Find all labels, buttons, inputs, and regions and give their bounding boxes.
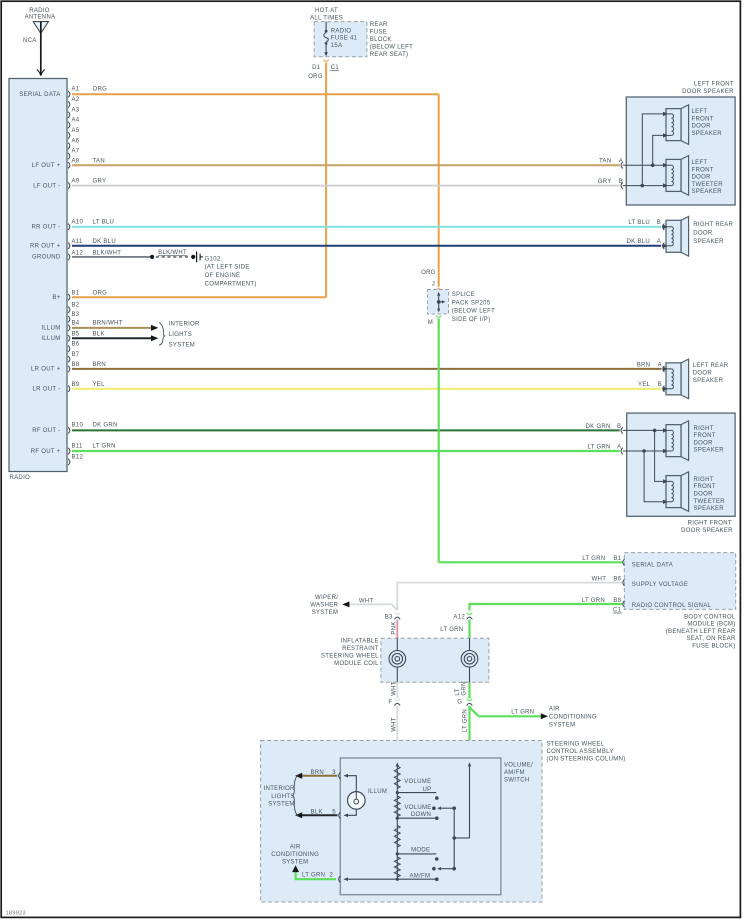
svg-text:B8: B8 [72,362,80,368]
svg-text:HOT AT: HOT AT [315,8,338,14]
svg-text:AM/FM: AM/FM [504,770,525,776]
svg-text:ORG: ORG [93,291,108,297]
svg-text:YEL: YEL [638,382,651,388]
svg-text:SPEAKER: SPEAKER [692,131,723,137]
svg-text:WHT: WHT [359,598,374,604]
svg-text:ALL TIMES: ALL TIMES [310,15,343,21]
svg-text:GRN: GRN [462,681,468,695]
svg-text:BLK/WHT: BLK/WHT [93,251,122,257]
svg-text:YEL: YEL [93,382,106,388]
svg-text:SPEAKER: SPEAKER [694,506,725,512]
svg-text:LT GRN: LT GRN [440,627,463,633]
svg-text:RIGHT: RIGHT [694,477,714,483]
svg-text:PNK: PNK [391,621,397,634]
svg-text:INFLATABLE: INFLATABLE [341,639,379,645]
svg-text:WASHER: WASHER [310,602,338,608]
svg-text:B6: B6 [72,341,80,347]
svg-text:DK GRN: DK GRN [93,423,118,429]
svg-text:A12: A12 [453,614,465,620]
svg-text:TAN: TAN [93,159,105,165]
svg-text:B3: B3 [385,614,393,620]
svg-text:DK GRN: DK GRN [586,424,611,430]
svg-text:LT BLU: LT BLU [93,220,115,226]
svg-text:LT GRN: LT GRN [582,556,605,562]
svg-text:RADIO: RADIO [29,8,50,14]
svg-text:B: B [619,179,623,185]
svg-text:B+: B+ [52,295,60,301]
svg-text:SERIAL DATA: SERIAL DATA [19,92,60,98]
svg-text:A: A [617,444,621,450]
svg-text:LT GRN: LT GRN [582,598,605,604]
svg-text:B10: B10 [72,423,84,429]
svg-text:B11: B11 [72,444,83,450]
svg-text:A: A [657,239,661,245]
svg-text:SPLICE: SPLICE [452,292,475,298]
svg-text:DOOR SPEAKER: DOOR SPEAKER [681,528,733,534]
svg-text:GROUND: GROUND [32,255,61,261]
svg-text:B4: B4 [72,321,80,327]
svg-text:RIGHT REAR: RIGHT REAR [693,222,733,228]
svg-text:SPEAKER: SPEAKER [694,448,725,454]
svg-text:3: 3 [332,770,336,776]
svg-text:A2: A2 [72,97,80,103]
svg-text:LEFT: LEFT [692,160,708,166]
svg-text:DOOR: DOOR [692,175,712,181]
svg-text:B1: B1 [72,291,80,297]
svg-text:DK BLU: DK BLU [93,239,116,245]
svg-text:RR OUT +: RR OUT + [30,244,61,250]
svg-text:SWITCH: SWITCH [504,777,529,783]
svg-text:LT GRN: LT GRN [587,444,610,450]
svg-text:SPEAKER: SPEAKER [692,189,723,195]
svg-text:A4: A4 [72,118,80,124]
svg-text:B: B [617,424,621,430]
svg-text:WIPER/: WIPER/ [315,595,338,601]
svg-text:COMPARTMENT): COMPARTMENT) [205,282,257,288]
svg-text:LIGHTS: LIGHTS [271,794,294,800]
svg-text:SYSTEM: SYSTEM [169,343,195,349]
svg-text:DOOR: DOOR [693,371,713,377]
svg-text:FUSE 41: FUSE 41 [331,36,358,42]
svg-text:15A: 15A [331,43,343,49]
svg-text:UP: UP [422,787,431,793]
svg-text:B7: B7 [72,352,80,358]
svg-text:LEFT FRONT: LEFT FRONT [694,82,734,88]
svg-text:(BELOW LEFT: (BELOW LEFT [370,45,413,51]
svg-text:ILLUM: ILLUM [368,789,387,795]
svg-text:AM/FM: AM/FM [409,874,430,880]
svg-text:RIGHT FRONT: RIGHT FRONT [688,520,732,526]
svg-text:B: B [658,382,662,388]
svg-text:A5: A5 [72,128,80,134]
svg-text:STEERING WHEEL: STEERING WHEEL [547,741,605,747]
svg-text:LR OUT -: LR OUT - [33,387,61,393]
svg-text:WHT: WHT [391,681,397,696]
svg-text:RADIO CONTROL SIGNAL: RADIO CONTROL SIGNAL [632,603,712,609]
svg-text:ORG: ORG [93,87,108,93]
svg-text:A: A [658,362,662,368]
svg-text:LEFT REAR: LEFT REAR [693,363,729,369]
svg-text:BRN: BRN [637,362,651,368]
svg-text:G102: G102 [205,256,221,262]
svg-text:RADIO: RADIO [331,28,352,34]
svg-text:BLK: BLK [311,810,323,816]
svg-text:INTERIOR: INTERIOR [169,322,200,328]
svg-text:D1: D1 [312,65,321,71]
svg-text:SPEAKER: SPEAKER [693,378,724,384]
svg-text:LT: LT [455,688,461,695]
svg-text:AIR: AIR [549,707,560,713]
svg-text:FRONT: FRONT [692,116,714,122]
svg-text:C1: C1 [331,65,340,71]
svg-text:ILLUM: ILLUM [41,336,60,342]
svg-text:SUPPLY VOLTAGE: SUPPLY VOLTAGE [632,582,688,588]
svg-text:LT GRN: LT GRN [511,710,534,716]
svg-text:LT GRN: LT GRN [93,444,116,450]
svg-text:A6: A6 [72,138,80,144]
svg-text:LR OUT +: LR OUT + [31,367,61,373]
svg-text:A: A [619,159,623,165]
svg-text:DOOR: DOOR [693,230,713,236]
svg-text:LT GRN: LT GRN [463,709,469,732]
svg-text:WHT: WHT [592,577,607,583]
svg-text:(BENEATH LEFT REAR: (BENEATH LEFT REAR [666,629,736,635]
svg-text:B5: B5 [72,331,80,337]
svg-text:FRONT: FRONT [692,167,714,173]
svg-text:CONDITIONING: CONDITIONING [271,852,319,858]
svg-text:RF OUT -: RF OUT - [32,428,60,434]
svg-text:A10: A10 [72,220,84,226]
svg-text:A7: A7 [72,149,80,155]
svg-text:NCA: NCA [23,38,37,44]
svg-text:A12: A12 [72,251,84,257]
svg-text:BRN/WHT: BRN/WHT [93,321,123,327]
svg-text:SIDE OF I/P): SIDE OF I/P) [452,317,491,323]
svg-text:SYSTEM: SYSTEM [282,859,308,865]
svg-text:BRN: BRN [311,770,325,776]
svg-text:DOOR: DOOR [694,440,714,446]
svg-text:REAR: REAR [370,22,388,28]
svg-text:RR OUT -: RR OUT - [32,225,61,231]
svg-text:J: J [432,281,435,287]
svg-text:DOOR: DOOR [694,492,714,498]
svg-text:B6: B6 [613,577,621,583]
svg-text:FRONT: FRONT [694,433,716,439]
svg-text:GRY: GRY [598,179,612,185]
svg-text:FUSE: FUSE [370,30,387,36]
svg-text:MODULE (BCM): MODULE (BCM) [687,622,735,628]
svg-text:SYSTEM: SYSTEM [268,802,294,808]
svg-text:LF OUT -: LF OUT - [33,183,60,189]
svg-text:ORG: ORG [421,270,436,276]
svg-text:C1: C1 [613,607,622,613]
svg-text:SEAT, ON REAR: SEAT, ON REAR [686,636,735,642]
svg-text:DOWN: DOWN [411,812,431,818]
svg-text:VOLUME/: VOLUME/ [504,763,533,769]
svg-text:LF OUT +: LF OUT + [32,163,61,169]
svg-text:MODULE COIL: MODULE COIL [334,661,379,667]
svg-text:(BELOW LEFT: (BELOW LEFT [452,309,495,315]
svg-text:FRONT: FRONT [694,484,716,490]
svg-text:REAR SEAT): REAR SEAT) [370,52,409,58]
svg-text:BODY CONTROL: BODY CONTROL [684,614,736,620]
svg-text:RADIO: RADIO [10,475,31,481]
svg-text:ORG: ORG [308,74,323,80]
svg-text:SYSTEM: SYSTEM [549,723,575,729]
svg-text:B: B [657,220,661,226]
svg-text:SYSTEM: SYSTEM [312,610,338,616]
svg-text:BRN: BRN [93,362,107,368]
svg-text:GRY: GRY [93,178,107,184]
svg-text:ILLUM: ILLUM [41,326,60,332]
svg-text:OF ENGINE: OF ENGINE [205,273,241,279]
svg-text:LT GRN: LT GRN [302,873,325,879]
svg-text:A9: A9 [72,178,80,184]
svg-text:A3: A3 [72,107,80,113]
svg-text:MODE: MODE [411,847,430,853]
svg-text:STEERING WHEEL: STEERING WHEEL [321,654,379,660]
svg-text:B8: B8 [613,598,621,604]
svg-text:F: F [388,699,392,705]
svg-text:M: M [428,320,433,326]
svg-text:SERIAL DATA: SERIAL DATA [632,563,673,569]
svg-text:LIGHTS: LIGHTS [169,332,192,338]
svg-text:A1: A1 [72,87,80,93]
svg-text:A11: A11 [72,239,83,245]
svg-text:VOLUME: VOLUME [404,805,431,811]
svg-text:(AT LEFT SIDE: (AT LEFT SIDE [205,265,250,271]
svg-text:BLOCK: BLOCK [370,37,392,43]
svg-text:TAN: TAN [599,159,611,165]
svg-text:B9: B9 [72,382,80,388]
svg-text:SPEAKER: SPEAKER [693,239,724,245]
svg-text:B12: B12 [72,455,84,461]
svg-text:ANTENNA: ANTENNA [25,15,56,21]
svg-text:5: 5 [332,810,336,816]
svg-text:TWEETER: TWEETER [694,499,726,505]
svg-text:TWEETER: TWEETER [692,182,724,188]
svg-text:B2: B2 [72,302,80,308]
svg-text:A8: A8 [72,159,80,165]
svg-text:PACK SP205: PACK SP205 [452,300,491,306]
svg-text:AIR: AIR [290,844,301,850]
svg-text:DK BLU: DK BLU [627,239,650,245]
svg-text:RESTRAINT: RESTRAINT [342,646,379,652]
svg-text:FUSE BLOCK): FUSE BLOCK) [692,644,735,650]
svg-text:2: 2 [330,873,334,879]
svg-text:LEFT: LEFT [692,109,708,115]
svg-text:B1: B1 [613,556,621,562]
svg-text:DOOR SPEAKER: DOOR SPEAKER [682,89,734,95]
svg-text:LT BLU: LT BLU [628,220,650,226]
svg-text:INTERIOR: INTERIOR [264,786,295,792]
svg-text:WHT: WHT [391,717,397,732]
svg-text:CONTROL ASSEMBLY: CONTROL ASSEMBLY [547,749,614,755]
svg-text:(ON STEERING COLUMN): (ON STEERING COLUMN) [547,756,626,762]
svg-text:189923: 189923 [6,911,26,917]
svg-text:DOOR: DOOR [692,124,712,130]
svg-text:RIGHT: RIGHT [694,426,714,432]
svg-text:VOLUME: VOLUME [404,779,431,785]
svg-text:G: G [457,699,462,705]
svg-text:CONDITIONING: CONDITIONING [549,715,597,721]
svg-text:BLK: BLK [93,331,105,337]
svg-text:RF OUT +: RF OUT + [31,449,61,455]
svg-text:B3: B3 [72,312,80,318]
